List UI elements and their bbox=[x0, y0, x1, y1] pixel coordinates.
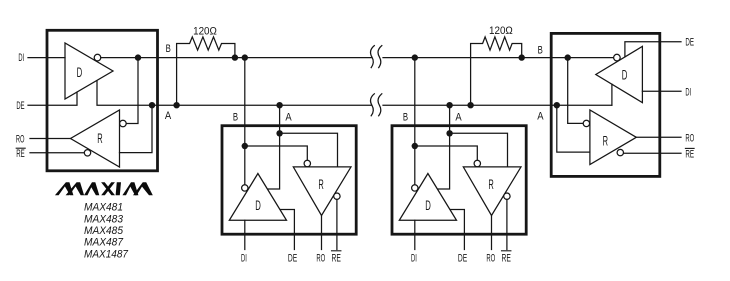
node A internal junction U3 bbox=[446, 130, 452, 136]
svg-text:MAX485: MAX485 bbox=[84, 225, 124, 237]
wire RE pin U3 bbox=[506, 199, 508, 249]
bus wire A segment right bbox=[383, 104, 612, 106]
svg-text:MAX1487: MAX1487 bbox=[84, 248, 129, 260]
break symbol B line bbox=[371, 46, 375, 68]
resistor R2 120ohm termination right bbox=[471, 37, 522, 105]
wire DE pin U2 bbox=[281, 210, 295, 250]
receiver R (U2) bbox=[293, 167, 351, 216]
wire DI input U1 bbox=[28, 57, 65, 59]
transceiver box U1 (left) bbox=[47, 30, 158, 171]
svg-text:RE: RE bbox=[16, 148, 25, 160]
svg-text:DE: DE bbox=[685, 37, 694, 49]
bubble receiver inverting input U1 bbox=[120, 120, 127, 127]
svg-text:RO: RO bbox=[316, 253, 325, 265]
bubble receiver inverting input U4 bbox=[583, 120, 589, 126]
overline RE U4 bbox=[685, 147, 694, 149]
wire driver output to B terminal U1 bbox=[101, 57, 159, 59]
node A internal junction U2 bbox=[276, 130, 282, 136]
wire RO pin U2 bbox=[321, 216, 323, 250]
node R2 lower leg on A bus bbox=[467, 102, 473, 108]
svg-text:R: R bbox=[603, 133, 609, 148]
svg-text:D: D bbox=[255, 198, 261, 213]
driver D (U4) bbox=[596, 46, 643, 102]
wire B to receiver inverting input U4 bbox=[568, 58, 583, 124]
node B junction U4 bbox=[565, 54, 571, 60]
bubble receiver inverting input U3 bbox=[474, 160, 480, 166]
wire DI input U4 bbox=[642, 90, 681, 92]
wire driver A output U1 bbox=[97, 81, 159, 105]
svg-text:B: B bbox=[538, 44, 543, 56]
node A junction U4 bbox=[554, 102, 560, 108]
svg-text:MAX487: MAX487 bbox=[84, 237, 124, 249]
driver D (U3) bbox=[399, 174, 456, 221]
break symbol A line bbox=[371, 94, 375, 116]
wire A to receiver noninverting input U3 bbox=[450, 133, 508, 167]
svg-text:B: B bbox=[233, 111, 238, 123]
receiver R (U1) bbox=[71, 110, 120, 167]
node B junction U1 bbox=[135, 54, 141, 60]
node R1 upper leg on B bus bbox=[232, 54, 238, 60]
svg-text:B: B bbox=[403, 111, 408, 123]
svg-text:A: A bbox=[165, 110, 172, 122]
svg-text:D: D bbox=[77, 65, 83, 80]
wire A feed U2 bbox=[268, 105, 279, 189]
bubble driver B output U1 bbox=[94, 54, 101, 61]
bus wire B segment right bbox=[383, 57, 613, 59]
svg-text:DI: DI bbox=[241, 253, 247, 265]
transceiver box U3 (middle right) bbox=[392, 126, 526, 235]
svg-text:D: D bbox=[425, 198, 431, 213]
svg-text:MAX481: MAX481 bbox=[84, 202, 123, 214]
svg-text:RE: RE bbox=[685, 149, 694, 161]
node A tap U3 on bus bbox=[446, 102, 452, 108]
svg-text:120Ω: 120Ω bbox=[489, 25, 513, 37]
svg-text:RO: RO bbox=[685, 133, 694, 145]
node B internal junction U3 bbox=[412, 143, 418, 149]
svg-text:DE: DE bbox=[288, 253, 297, 265]
wire RE input U1 bbox=[30, 152, 84, 154]
wire RE input U4 bbox=[624, 152, 682, 154]
driver D (U1) bbox=[65, 43, 113, 99]
wire A to receiver input U4 bbox=[557, 105, 590, 152]
svg-text:R: R bbox=[318, 177, 324, 192]
svg-text:B: B bbox=[166, 43, 171, 55]
svg-text:RO: RO bbox=[16, 133, 25, 145]
node B tap U2 on bus bbox=[242, 54, 248, 60]
bubble driver inverted output U2 bbox=[242, 185, 248, 191]
wire driver A output U4 bbox=[611, 84, 613, 105]
wire B feed U2 bbox=[244, 58, 246, 185]
overline RE U3 bbox=[502, 250, 511, 252]
wire DE input U1 bbox=[28, 92, 77, 105]
bubble driver B output U4 bbox=[614, 54, 621, 61]
MAXIM logo bbox=[55, 182, 153, 195]
bubble receiver inverting input U2 bbox=[304, 160, 310, 166]
wire DI pin U3 bbox=[414, 220, 416, 249]
svg-text:A: A bbox=[285, 111, 292, 123]
bus wire A segment left bbox=[159, 104, 372, 106]
resistor R1 120ohm termination left bbox=[177, 37, 235, 105]
wire B to receiver inverting input U3 bbox=[415, 146, 478, 160]
node B internal junction U2 bbox=[242, 143, 248, 149]
svg-text:RE: RE bbox=[502, 253, 511, 265]
svg-text:RE: RE bbox=[332, 253, 341, 265]
receiver R (U3) bbox=[463, 167, 521, 216]
svg-text:D: D bbox=[622, 68, 628, 83]
svg-text:DE: DE bbox=[16, 100, 24, 112]
svg-text:MAX483: MAX483 bbox=[84, 213, 124, 225]
bubble RE enable U4 bbox=[617, 149, 623, 155]
wire A feed U3 bbox=[438, 105, 449, 189]
node R1 lower leg on A bus bbox=[173, 102, 179, 108]
wire B to receiver inverting input U2 bbox=[245, 146, 307, 160]
bubble driver inverted output U3 bbox=[412, 185, 418, 191]
wire DI pin U2 bbox=[244, 220, 246, 249]
svg-text:R: R bbox=[97, 131, 103, 146]
svg-text:A: A bbox=[455, 111, 462, 123]
bus wire B segment left bbox=[159, 57, 372, 59]
wire B to receiver inverting input U1 bbox=[126, 58, 138, 124]
transceiver box U4 (right) bbox=[551, 33, 660, 176]
wire RE pin U2 bbox=[336, 199, 338, 249]
svg-text:DE: DE bbox=[458, 253, 467, 265]
receiver R (U4) bbox=[590, 110, 636, 165]
svg-text:120Ω: 120Ω bbox=[193, 25, 217, 37]
overline RE U1 bbox=[16, 147, 25, 149]
wire DE input U4 bbox=[625, 42, 681, 57]
node B tap U3 on bus bbox=[412, 54, 418, 60]
bubble RE enable U3 bbox=[504, 193, 510, 199]
wire DE pin U3 bbox=[451, 210, 465, 250]
svg-text:DI: DI bbox=[411, 253, 417, 265]
transceiver box U2 (middle left) bbox=[222, 126, 356, 235]
wire RO output U1 bbox=[30, 138, 71, 140]
node R2 upper leg on B bus bbox=[519, 54, 525, 60]
wire B feed U3 bbox=[414, 58, 416, 185]
svg-text:DI: DI bbox=[685, 86, 691, 98]
driver D (U2) bbox=[229, 174, 286, 221]
node A tap U2 on bus bbox=[276, 102, 282, 108]
wire RO pin U3 bbox=[491, 216, 493, 250]
node A junction U1 bbox=[149, 102, 155, 108]
svg-text:RO: RO bbox=[486, 253, 495, 265]
svg-text:DI: DI bbox=[18, 52, 24, 64]
wire A to receiver noninverting input U2 bbox=[280, 133, 338, 167]
overline RE U2 bbox=[332, 250, 341, 252]
svg-text:A: A bbox=[537, 110, 544, 122]
bubble RE enable U1 bbox=[84, 150, 90, 156]
wire A to receiver input U1 bbox=[120, 105, 153, 152]
wire RO output U4 bbox=[636, 136, 681, 138]
bubble RE enable U2 bbox=[334, 193, 340, 199]
svg-text:R: R bbox=[488, 177, 494, 192]
